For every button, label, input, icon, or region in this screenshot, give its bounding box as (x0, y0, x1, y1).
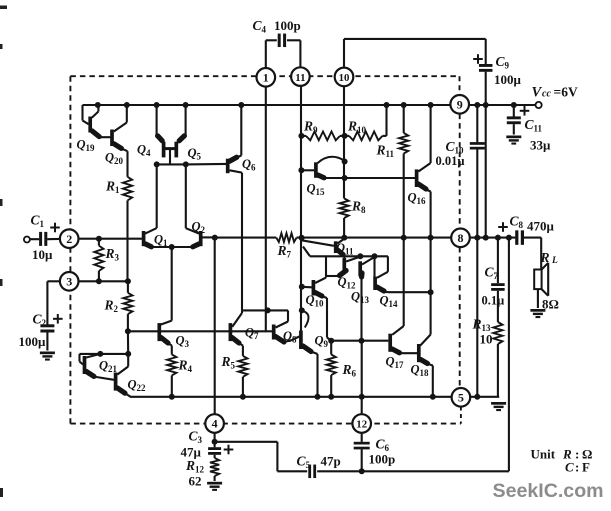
svg-text:cc: cc (542, 89, 551, 100)
svg-text::: : (575, 460, 579, 475)
svg-text:10: 10 (480, 332, 493, 347)
svg-text:2: 2 (66, 232, 72, 246)
svg-text:4: 4 (212, 417, 218, 431)
svg-text:12: 12 (356, 419, 367, 431)
svg-text:0.01μ: 0.01μ (436, 154, 465, 168)
svg-text:100μ: 100μ (494, 72, 522, 87)
svg-text:C: C (565, 460, 574, 475)
svg-text:10μ: 10μ (32, 247, 53, 262)
svg-text:10: 10 (339, 72, 350, 84)
svg-text:V: V (532, 85, 543, 101)
svg-text:R: R (540, 250, 550, 265)
svg-text:Unit: Unit (531, 447, 556, 462)
svg-text:SeekIC.com: SeekIC.com (493, 480, 604, 502)
svg-text:62: 62 (189, 474, 202, 489)
svg-text:11: 11 (295, 72, 305, 84)
svg-text:1: 1 (263, 71, 269, 85)
svg-text:0.1μ: 0.1μ (482, 294, 505, 308)
svg-text:8Ω: 8Ω (542, 297, 559, 312)
svg-text:=6V: =6V (554, 85, 578, 100)
svg-text:100μ: 100μ (19, 334, 47, 349)
svg-text:470μ: 470μ (527, 219, 555, 234)
svg-text:5: 5 (458, 391, 464, 405)
svg-text:33μ: 33μ (530, 138, 551, 153)
svg-text:3: 3 (66, 275, 72, 289)
svg-text:8: 8 (458, 231, 464, 245)
svg-text:100p: 100p (369, 452, 396, 467)
svg-text:9: 9 (457, 98, 463, 112)
svg-text:100p: 100p (274, 18, 301, 33)
svg-text:47p: 47p (321, 454, 341, 469)
svg-text:L: L (551, 256, 558, 266)
svg-text:F: F (582, 460, 590, 475)
